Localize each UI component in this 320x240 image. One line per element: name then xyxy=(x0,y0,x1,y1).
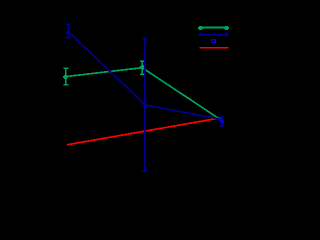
blue error bar 1 xyxy=(66,24,71,37)
green diamond marker 2 xyxy=(140,65,145,69)
legend green sample line xyxy=(200,27,229,29)
legend red sample line xyxy=(200,47,229,49)
blue error bar 2 xyxy=(143,39,148,171)
green diamond marker 3 xyxy=(218,118,223,121)
blue error bar 3 xyxy=(219,117,224,127)
legend green diamond right xyxy=(224,26,229,30)
green error bar 2 xyxy=(140,61,145,74)
blue triangle marker 3 xyxy=(219,118,224,122)
red line xyxy=(67,118,220,145)
blue triangle marker 1 xyxy=(66,30,71,34)
blue square marker (data) xyxy=(221,120,223,122)
legend blue triangle right xyxy=(224,32,229,36)
green diamond marker 1 xyxy=(63,75,68,79)
green series polyline xyxy=(66,68,221,120)
blue series polyline xyxy=(68,31,221,119)
blue triangle marker 2 xyxy=(143,103,148,107)
legend blue sample line xyxy=(200,34,229,36)
legend green diamond left xyxy=(198,26,203,30)
legend blue triangle left xyxy=(198,32,203,36)
green error bar 1 xyxy=(64,68,69,85)
legend blue square sample xyxy=(211,39,216,43)
